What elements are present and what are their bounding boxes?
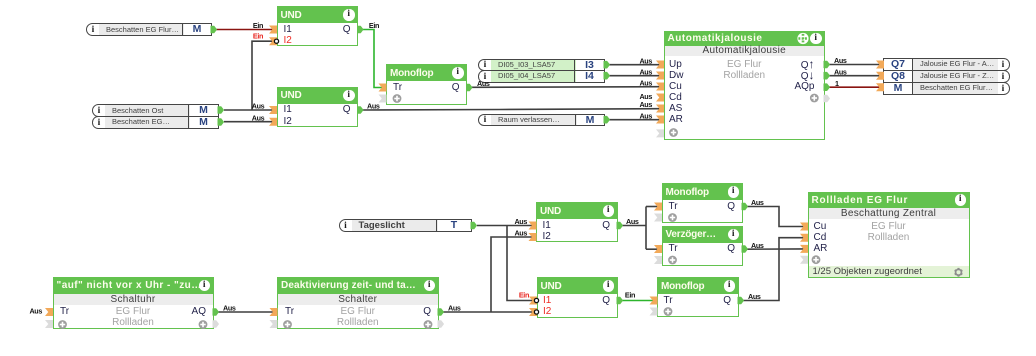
wire I4 node to Automatikjalousie.Dw (Aus) xyxy=(609,67,660,76)
svg-text:Ein: Ein xyxy=(253,21,263,30)
wire U3.Q to Automatikjalousie.Cu (Aus) xyxy=(471,78,660,88)
wire M Raum-verlassen to Automatikjalousie.AR (Aus) xyxy=(609,111,660,120)
connectors Deaktivierung xyxy=(270,308,444,329)
logic block UND U1 xyxy=(277,6,359,46)
logic block Monoflop U3 xyxy=(386,64,467,105)
output connectors Automatikjalousie xyxy=(810,61,830,102)
wire M Beschatten-EG-Flur to U1.I1 (Ein, red) xyxy=(216,21,273,30)
wire Automatikjalousie.Q-up to node Q7 (Aus) xyxy=(829,56,880,65)
svg-text:Aus: Aus xyxy=(252,102,265,111)
svg-text:Aus: Aus xyxy=(367,102,380,111)
gear icon Rollladen footer xyxy=(954,268,963,277)
function block Rollladen EG Flur xyxy=(808,192,970,278)
function block Automatikjalousie xyxy=(664,31,826,140)
svg-text:Ein: Ein xyxy=(369,21,379,30)
wire I3 node to Automatikjalousie.Up (Aus) xyxy=(609,56,660,65)
svg-text:Aus: Aus xyxy=(223,304,236,313)
output connector U2.Q xyxy=(358,107,364,114)
svg-text:Aus: Aus xyxy=(626,217,639,226)
logic block UND U4 xyxy=(536,202,618,242)
svg-text:Aus: Aus xyxy=(639,100,652,109)
svg-text:Aus: Aus xyxy=(639,56,652,65)
svg-text:Aus: Aus xyxy=(751,198,764,207)
wire U6.Q to Rollladen.AR (Aus) xyxy=(747,241,804,250)
function block Deaktivierung xyxy=(277,277,439,329)
wire Schaltuhr.AQ to Deaktivierung.Tr (Aus) xyxy=(218,304,273,313)
wire T Tageslicht to U4.I1 with branch down to U7.I1 (Aus/Ein) xyxy=(477,217,534,300)
svg-text:Aus: Aus xyxy=(514,217,527,226)
output node Q7 Jalousie EG Flur A xyxy=(883,58,1010,71)
logic block Verzoegerung U6 xyxy=(662,226,743,266)
svg-text:Aus: Aus xyxy=(639,111,652,120)
input node Beschatten Ost (M) xyxy=(92,104,219,117)
input connectors U2 xyxy=(269,106,277,126)
logic block Monoflop U8 xyxy=(657,277,739,317)
connectors U5 Monoflop xyxy=(654,203,748,222)
logic block UND U7 xyxy=(537,277,618,318)
input node Tageslicht (T) xyxy=(339,219,473,232)
connectors U8 Monoflop xyxy=(650,297,744,316)
connectors U4 xyxy=(529,222,623,242)
wire Automatikjalousie.AQp to node M (value 1, red) xyxy=(829,79,880,88)
svg-text:Ein: Ein xyxy=(253,31,263,40)
wire U2.Q to Automatikjalousie.AS (Aus) xyxy=(362,100,660,111)
svg-text:Aus: Aus xyxy=(834,67,847,76)
wire U7.Q to U8.Tr (Ein, green) xyxy=(622,290,654,300)
connectors Schaltuhr xyxy=(45,308,219,329)
svg-text:Aus: Aus xyxy=(751,241,764,250)
function block Schaltuhr xyxy=(53,277,214,329)
input node DI05_I04_LSA57 (I4) xyxy=(478,70,605,83)
connectors Rollladen block xyxy=(800,223,820,265)
output node Q8 Jalousie EG Flur Z xyxy=(883,70,1010,83)
svg-text:1: 1 xyxy=(835,79,839,88)
output node M Beschatten EG Flur xyxy=(883,82,1010,95)
svg-text:Aus: Aus xyxy=(639,92,652,101)
wire Deaktivierung.Q to U7.I2 with branch up to U4.I2 (Aus) xyxy=(443,229,534,313)
value label Aus at Schaltuhr.Tr xyxy=(29,306,42,315)
value label Aus at Automatikjalousie.Cd xyxy=(639,92,652,101)
wire M Beschatten-Ost to U2.I1 with branch up to U1.I2 (Aus/Ein) xyxy=(224,31,273,110)
wire U1.Q to U3.Tr (Ein, green) xyxy=(362,21,382,87)
node input flags (orange) on Q7 Q8 M xyxy=(876,61,884,92)
connectors U7 with inversion circles xyxy=(529,297,623,317)
input node DI05_I03_LSA57 (I3) xyxy=(478,59,605,72)
svg-text:Aus: Aus xyxy=(477,79,490,88)
input node Raum verlassen (M) xyxy=(478,114,605,127)
svg-text:Aus: Aus xyxy=(514,229,527,238)
node output bumps (green) xyxy=(211,26,610,229)
svg-text:Aus: Aus xyxy=(834,56,847,65)
svg-text:Aus: Aus xyxy=(639,67,652,76)
svg-text:Aus: Aus xyxy=(639,78,652,87)
input node Beschatten EG Flur (M) xyxy=(86,23,212,36)
wire M Beschatten-EG to U2.I2 (Aus) xyxy=(224,113,273,122)
svg-text:Ein: Ein xyxy=(519,291,529,300)
wire U5.Q to Rollladen.Cu (Aus) xyxy=(747,198,804,226)
output connector U1.Q xyxy=(358,26,364,33)
connectors U3 Monoflop xyxy=(379,84,473,103)
svg-text:Aus: Aus xyxy=(748,292,761,301)
input connectors U1 with inversion circle on I2 xyxy=(269,26,279,46)
connectors U6 Verzoegerung xyxy=(654,245,748,264)
input connectors Automatikjalousie xyxy=(656,61,678,138)
move icon Automatikjalousie header xyxy=(797,33,808,44)
svg-text:Aus: Aus xyxy=(29,306,42,315)
input node Beschatten EG (M) xyxy=(92,116,219,129)
wire U4.Q to U5.Tr and U6.Tr junction (Aus) xyxy=(622,207,658,250)
wire Automatikjalousie.Q-down to node Q8 (Aus) xyxy=(829,67,880,76)
svg-text:Aus: Aus xyxy=(448,304,461,313)
svg-text:Ein: Ein xyxy=(625,290,635,299)
logic block Monoflop U5 xyxy=(662,183,743,223)
wire U8.Q to Rollladen.Cd (Aus) xyxy=(743,238,804,301)
logic block UND U2 xyxy=(277,87,359,127)
svg-text:Aus: Aus xyxy=(252,113,265,122)
